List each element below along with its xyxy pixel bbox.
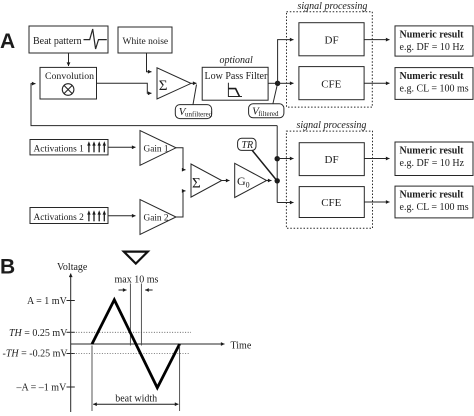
dashed box signal processing 2 [286, 131, 372, 228]
svg-text:Gain 1: Gain 1 [144, 144, 169, 154]
svg-text:Numeric result: Numeric result [400, 145, 465, 156]
wire Activations2 to Gain2 [108, 215, 136, 217]
svg-text:–A = –1 mV: –A = –1 mV [16, 383, 68, 394]
svg-text:signal processing: signal processing [297, 120, 367, 131]
svg-text:Activations 1: Activations 1 [34, 144, 85, 154]
block Activations 1 [30, 140, 108, 155]
wire net to CFE2 [277, 202, 293, 204]
block DF2 [299, 143, 364, 176]
wire G0 to junction dot2 [267, 180, 272, 182]
activation arrows 1 [87, 141, 106, 152]
label TR [238, 138, 256, 150]
svg-text:CFE: CFE [321, 197, 341, 209]
dotted TH level line [71, 331, 191, 333]
wire S2 to G0 [222, 180, 230, 182]
tick A level [67, 300, 75, 302]
summer S1 [157, 68, 191, 99]
svg-text:signal processing: signal processing [298, 1, 368, 12]
wire CFE2 to result 4 [364, 201, 389, 203]
beat pattern spike icon [84, 29, 107, 49]
tick -TH level [67, 353, 75, 355]
svg-text:White noise: White noise [123, 37, 169, 47]
wire Activations1 to Gain1 [108, 146, 136, 148]
max arrow right [145, 289, 152, 291]
wire summer to LPF [191, 82, 197, 84]
svg-text:Σ: Σ [159, 78, 168, 94]
svg-text:DF: DF [325, 35, 339, 47]
dotted -TH level line [71, 353, 190, 355]
amplifier Gain1 [140, 131, 176, 166]
svg-text:Convolution: Convolution [45, 71, 94, 82]
svg-text:TH = 0.25 mV: TH = 0.25 mV [9, 328, 68, 339]
svg-text:Numeric result: Numeric result [400, 29, 465, 40]
block DF1 [299, 23, 364, 56]
block Beat pattern [29, 26, 108, 53]
block White noise [118, 27, 172, 53]
voltage axis [70, 274, 72, 413]
wire LPF to junction [268, 82, 278, 84]
wire junction to CFE1 [278, 82, 294, 84]
tick TH level [67, 331, 75, 333]
junction dot2 [275, 178, 280, 183]
svg-text:e.g. CL = 100 ms: e.g. CL = 100 ms [400, 84, 469, 95]
svg-text:beat width: beat width [115, 394, 157, 405]
wire dot1 to DF2 [277, 158, 293, 160]
threshold crossing guide line 1 [129, 284, 131, 346]
svg-text:unfiltered: unfiltered [185, 111, 213, 119]
block Numeric result 3 [395, 142, 473, 176]
wire Gain1 to summer S2 [176, 148, 186, 170]
wire DF1 to result 1 [364, 39, 389, 41]
svg-text:Gain 2: Gain 2 [144, 214, 169, 224]
vertical net line [276, 126, 278, 203]
wire Convolution to summer [97, 83, 152, 93]
svg-text:Activations 2: Activations 2 [34, 213, 85, 223]
svg-text:e.g. DF = 10 Hz: e.g. DF = 10 Hz [400, 158, 465, 169]
svg-text:Low Pass Filter: Low Pass Filter [205, 71, 268, 82]
svg-text:B: B [0, 256, 15, 279]
low-pass response icon [228, 83, 242, 97]
block Low Pass Filter [202, 67, 268, 100]
block CFE1 [299, 67, 364, 100]
junction dot filtered output [275, 81, 280, 86]
activation arrows 2 [87, 210, 106, 221]
svg-text:max 10 ms: max 10 ms [115, 275, 159, 286]
svg-text:Numeric result: Numeric result [400, 189, 465, 200]
wire White noise to summer [147, 53, 152, 72]
beat waveform [92, 300, 180, 388]
tick -A level [67, 386, 75, 388]
wire Beat pattern to Convolution [68, 53, 70, 66]
svg-text:Time: Time [231, 341, 252, 352]
svg-text:DF: DF [325, 154, 339, 166]
beat width extension line right [179, 346, 181, 412]
max arrow left [119, 289, 127, 291]
dashed box signal processing 1 [287, 12, 373, 107]
svg-text:TR: TR [242, 140, 254, 151]
summer S2 [191, 164, 222, 197]
wire junction up to DF1 [278, 40, 294, 84]
wire Gain2 to summer S2 [176, 191, 186, 217]
svg-text:-TH = -0.25 mV: -TH = -0.25 mV [3, 349, 69, 360]
feedback wire from lower net to Convolution [31, 84, 277, 126]
svg-text:CFE: CFE [321, 78, 341, 90]
inverted triangle marker [124, 252, 148, 264]
svg-text:filtered: filtered [258, 110, 279, 118]
beat width dimension arrow [93, 403, 178, 405]
wire CFE1 to result 2 [364, 82, 389, 84]
block Numeric result 1 [395, 26, 473, 56]
svg-text:e.g. CL = 100 ms: e.g. CL = 100 ms [400, 202, 469, 213]
block CFE2 [299, 187, 364, 218]
svg-text:optional: optional [220, 55, 254, 66]
svg-text:Numeric result: Numeric result [400, 71, 465, 82]
svg-text:Σ: Σ [192, 175, 201, 191]
switch lever from TR to dot2 [252, 150, 277, 181]
block Activations 2 [30, 208, 108, 224]
svg-text:A = 1 mV: A = 1 mV [27, 296, 68, 307]
time axis [71, 343, 225, 345]
label Vfiltered [273, 86, 277, 104]
wire DF2 to result 3 [364, 158, 389, 160]
block Numeric result 2 [395, 68, 473, 100]
threshold crossing guide line 2 [140, 284, 142, 346]
block Convolution [40, 67, 97, 99]
svg-text:A: A [0, 30, 15, 53]
label Vunfiltered [193, 85, 197, 105]
convolution circle-cross symbol [62, 84, 74, 96]
amplifier Gain2 [140, 200, 176, 235]
amplifier G0 [235, 163, 267, 197]
svg-text:e.g. DF = 10 Hz: e.g. DF = 10 Hz [400, 42, 465, 53]
svg-text:Voltage: Voltage [57, 262, 88, 273]
beat width extension line left [91, 346, 93, 412]
svg-text:Beat pattern: Beat pattern [33, 36, 82, 47]
block Numeric result 4 [395, 186, 473, 218]
junction dot1 [275, 156, 280, 161]
